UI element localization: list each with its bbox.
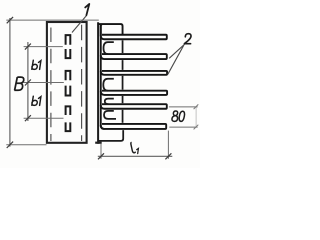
staple clip P1 (66, 35, 71, 45)
label b1 upper (32, 60, 41, 69)
outlet elbow to panel bottom (99, 130, 123, 141)
tick B bottom (7, 142, 13, 148)
tick 80 top (194, 104, 199, 109)
label l1 script l (131, 142, 136, 153)
tick b1 bottom (25, 115, 31, 121)
staple clip U3 (66, 122, 71, 131)
b1 extension line top (24, 46, 63, 48)
tube run 1 (101, 35, 167, 40)
label l1 subscript 1 (137, 148, 139, 153)
tick l1 right (165, 153, 171, 159)
label 80 digit 8 (172, 111, 178, 121)
staple clip P2 (66, 71, 71, 80)
dimension l1 line (98, 155, 173, 157)
tick 80 bottom (194, 125, 199, 130)
tick b1 top (25, 44, 31, 50)
label 1 (85, 4, 89, 15)
rear feed tube segment 2 (122, 60, 124, 70)
leader line b to label 2 (168, 45, 184, 74)
tube run 6 (101, 124, 166, 129)
dimension b1 line (27, 42, 29, 121)
dimension B line (9, 18, 11, 147)
panel side view bottom foot (95, 142, 102, 144)
staple clip P3 (66, 106, 71, 115)
tick l1 left (98, 153, 104, 159)
inlet elbow over panel top (98, 24, 122, 36)
dimension 80 extension top (169, 106, 198, 108)
leader line to label 1 (72, 16, 87, 33)
dimension B bottom extension line (6, 144, 46, 146)
b1 extension line bottom (24, 117, 64, 119)
left outer bend column (101, 25, 105, 129)
panel side view edge line (97, 22, 99, 144)
rear feed tube segment 3 (122, 76, 124, 90)
dimension B top extension line (6, 19, 99, 21)
coil tubes (item 2) (98, 24, 167, 129)
rear bend ear 4-5 (105, 99, 114, 105)
dashed bend line right (81, 25, 83, 141)
leader line a to label 2 (169, 44, 184, 58)
dimension 80 line (195, 107, 197, 128)
panel front view outer rectangle (item 1) (47, 22, 87, 143)
dimension 80 extension bottom (169, 126, 197, 128)
b1 extension line middle (24, 82, 64, 84)
l1 extension left (100, 144, 102, 159)
rear feed tube segment 4 (122, 96, 124, 103)
rear bend ear 5-6 (104, 111, 116, 119)
label 80 digit 0 (179, 111, 184, 121)
tube run 4 (101, 91, 167, 95)
tube run 3 (101, 71, 167, 75)
l1 extension right (167, 131, 169, 159)
tube run 5 (101, 104, 167, 109)
label b1 lower (32, 96, 41, 105)
rear feed tube segment 1 (122, 40, 124, 53)
tick B top (7, 17, 13, 23)
rear bend ear 3-4 (103, 79, 114, 91)
label 2 (184, 34, 191, 44)
rear bend ear 1-2 (104, 42, 114, 54)
dashed bend line left (50, 28, 52, 142)
tube run 2 (101, 54, 167, 59)
tick b1 middle (25, 80, 31, 86)
staple clip U2 (66, 86, 71, 96)
rear feed tube segment 5 (122, 110, 124, 123)
staple clip U1 (66, 49, 71, 58)
label B (14, 77, 23, 90)
